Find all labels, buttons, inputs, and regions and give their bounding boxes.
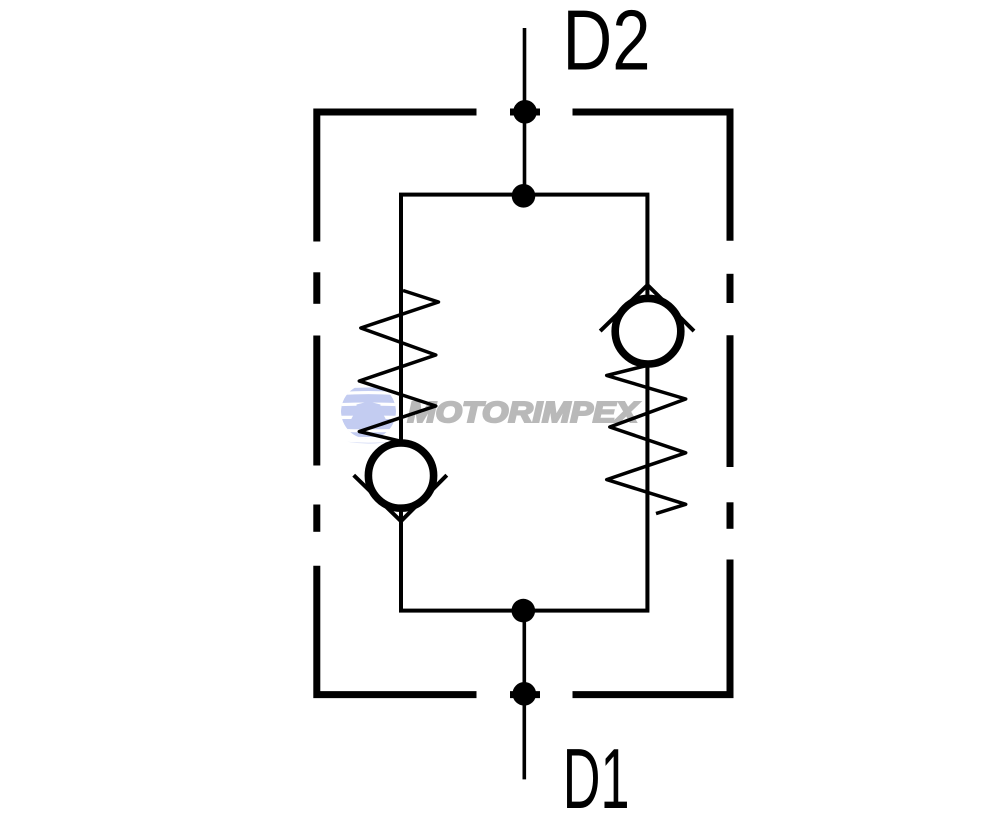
enclosure border: top dash stub behind D2 node xyxy=(510,109,540,116)
enclosure border: left dash 2 xyxy=(313,336,320,466)
check valve V1 ball (left circle) xyxy=(368,443,433,508)
wire: right branch lower lead xyxy=(646,364,650,611)
wire: D2 port line (top vertical) xyxy=(523,28,527,196)
spring of check valve V1 (left) xyxy=(359,291,438,441)
node: D1 junction on border xyxy=(513,682,537,706)
node: junction at inner rectangle bottom xyxy=(512,599,536,623)
wire: left branch upper lead xyxy=(399,194,403,444)
enclosure border: left dash 1 xyxy=(313,272,320,304)
enclosure border: top-left corner segment xyxy=(317,112,477,242)
svg-text:D1: D1 xyxy=(563,732,630,825)
node: junction at inner rectangle top xyxy=(512,184,536,208)
enclosure border: bottom-left corner segment xyxy=(317,566,477,695)
watermark globe logo xyxy=(337,384,400,444)
wire: right branch upper lead xyxy=(646,194,650,284)
node: D2 junction on border xyxy=(513,100,537,124)
wire: left branch lower lead xyxy=(399,522,403,611)
svg-text:MOTORIMPEX: MOTORIMPEX xyxy=(408,397,641,429)
enclosure border: right dash 3 xyxy=(727,502,734,529)
spring of check valve V2 (right) xyxy=(607,365,686,513)
wire: inner rectangle loop xyxy=(401,195,647,611)
check valve V2 seat (right, apex up) xyxy=(600,285,694,331)
enclosure border: top-right corner segment xyxy=(573,112,731,241)
enclosure border: bottom-right corner segment xyxy=(573,560,731,695)
enclosure border: right dash 1 xyxy=(727,274,734,303)
enclosure border: right dash 2 xyxy=(727,335,734,467)
wire: D1 port line (bottom vertical) xyxy=(522,611,526,780)
check valve V2 ball (right circle) xyxy=(615,298,681,364)
enclosure border: left dash 3 xyxy=(313,505,320,532)
check valve V1 seat xyxy=(354,475,447,521)
svg-text:D2: D2 xyxy=(563,0,651,88)
enclosure border: bottom dash stub behind D1 node xyxy=(510,691,540,698)
